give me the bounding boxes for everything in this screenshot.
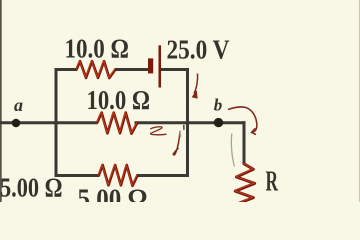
resistor R2 10.0 ohm (middle branch)	[97, 112, 137, 133]
battery V1 long plate (positive)	[159, 45, 162, 87]
wire: left vertical side of parallel box	[55, 68, 58, 177]
annotation: faint pencil line pointing to resistor R	[231, 134, 234, 167]
node b dot	[214, 118, 223, 127]
annotation: red arrow below 25.0 V	[193, 74, 198, 99]
svg-text:a: a	[14, 95, 23, 115]
annotation: small dark tick below wire crossing	[183, 125, 185, 130]
resistor R (vertical, right side)	[235, 164, 255, 203]
resistor R3 5.00 ohm (bottom branch)	[98, 165, 137, 186]
annotation: red squiggle near middle resistor	[150, 127, 166, 135]
wire: bottom branch segments	[55, 174, 190, 177]
resistor R1 10.0 ohm (top branch)	[76, 61, 115, 78]
wire: right vertical side of parallel box	[186, 68, 189, 177]
svg-text:10.0 Ω: 10.0 Ω	[65, 34, 130, 64]
svg-text:b: b	[214, 96, 223, 115]
left screen edge line	[0, 0, 2, 202]
annotation: red check mark below squiggle	[173, 131, 180, 155]
right screen edge line	[359, 0, 360, 202]
svg-text:5.00 Ω: 5.00 Ω	[0, 173, 63, 203]
annotation: red curved arrow right of node b	[228, 107, 257, 135]
wire: top branch segments	[55, 68, 190, 71]
wire: vertical drop from corner down toward resistor R	[243, 121, 246, 164]
annotation: faint red tick below wire crossing	[179, 131, 182, 137]
node a dot	[12, 119, 21, 128]
battery V1 short plate (negative)	[148, 58, 153, 73]
svg-text:5.00 Ω: 5.00 Ω	[78, 184, 148, 203]
svg-text:25.0 V: 25.0 V	[167, 35, 230, 65]
wire: main horizontal from left edge through node a to node b	[0, 121, 246, 124]
svg-text:10.0 Ω: 10.0 Ω	[87, 85, 151, 115]
svg-text:R: R	[266, 166, 279, 198]
